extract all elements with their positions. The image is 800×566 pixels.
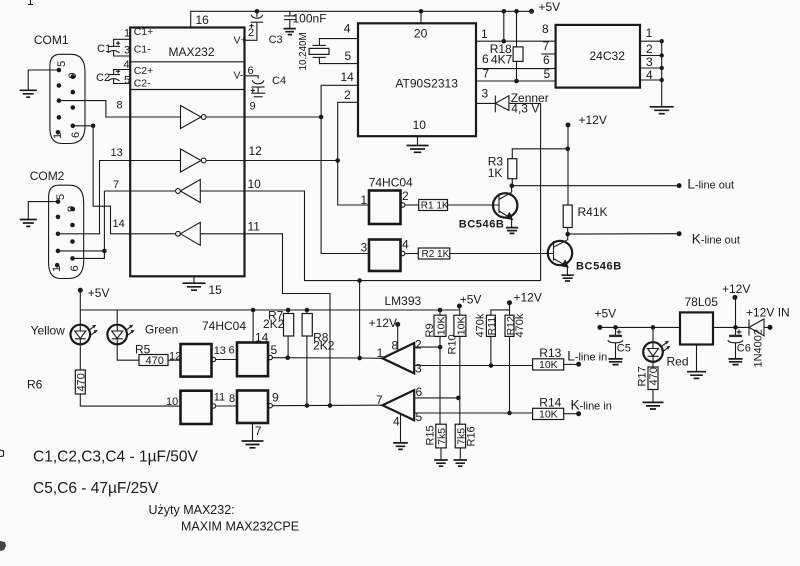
zener diode 4,3V: [476, 102, 495, 104]
svg-text:470: 470: [146, 355, 164, 367]
IC U1 MAX232 body: [130, 28, 244, 277]
svg-text:10.240M: 10.240M: [298, 32, 309, 70]
svg-text:+12V IN: +12V IN: [746, 306, 790, 320]
svg-text:10K: 10K: [436, 317, 448, 336]
svg-text:100nF: 100nF: [293, 12, 327, 26]
resistor R14 10K: [533, 408, 564, 419]
svg-text:BC546B: BC546B: [576, 261, 622, 273]
gate U6D 74HC04 pins 8-9: [237, 391, 268, 424]
svg-text:4: 4: [393, 415, 400, 429]
svg-text:5: 5: [56, 61, 68, 67]
resistor R8 2K2: [305, 308, 310, 313]
24C32 right pins to ground bus: [640, 40, 662, 42]
svg-text:AT90S2313: AT90S2313: [395, 77, 458, 91]
svg-text:2K2: 2K2: [263, 317, 285, 331]
svg-text:16: 16: [196, 13, 210, 27]
ground under 100nF: [283, 29, 296, 35]
wire LED1 to R6: [79, 345, 81, 371]
diode D4 1N4002: [748, 320, 750, 336]
resistor R15 7k5: [436, 424, 446, 448]
ground at COM2: [20, 220, 37, 227]
wire comp2 pin4 to ground: [400, 414, 402, 443]
svg-text:6: 6: [70, 132, 82, 138]
+5V terminal at R10: [457, 304, 462, 309]
crystal X1 10.240M: [319, 39, 358, 46]
+12V terminal first: [566, 123, 571, 128]
svg-text:9: 9: [66, 206, 78, 212]
svg-text:470k: 470k: [475, 313, 487, 337]
COM2 pin dots right column: [70, 207, 75, 212]
+5V rail top: [191, 11, 532, 27]
stray mark top-left corner: [28, 0, 33, 5]
wire 74HC04 pin7 to ground: [252, 423, 254, 441]
svg-text:2: 2: [344, 88, 351, 102]
svg-text:C1+: C1+: [134, 26, 154, 38]
ground at COM1: [20, 90, 37, 97]
resistor R1 1K: [419, 200, 448, 211]
wire comp2 pin6: [414, 397, 458, 399]
svg-text:Green: Green: [145, 323, 178, 337]
wire +12V down: [567, 125, 569, 205]
K-line out terminal: [677, 231, 682, 236]
svg-text:R41K: R41K: [578, 205, 608, 219]
stray mark left edge bottom: [0, 541, 6, 551]
svg-text:C3: C3: [269, 34, 283, 46]
wire COM2 pin3 to MAX232 pin13: [58, 161, 130, 234]
resistor R5 470: [139, 355, 168, 366]
svg-text:R6: R6: [27, 378, 43, 392]
wire MAX232 pin10 net: [245, 191, 541, 281]
svg-text:10K: 10K: [455, 317, 467, 336]
svg-text:5: 5: [544, 67, 551, 81]
IC U7 78L05 body: [680, 312, 713, 344]
svg-text:R9: R9: [424, 323, 436, 337]
svg-text:2: 2: [646, 42, 653, 56]
svg-text:MAXIM MAX232CPE: MAXIM MAX232CPE: [181, 520, 299, 534]
svg-text:L-line in: L-line in: [567, 349, 607, 364]
+5V terminal top: [529, 9, 534, 14]
svg-text:R5: R5: [135, 343, 151, 357]
svg-text:11: 11: [214, 392, 225, 404]
svg-text:11: 11: [248, 220, 261, 234]
capacitor C4: [245, 76, 259, 79]
L-line out terminal: [677, 183, 682, 188]
svg-text:13: 13: [111, 147, 123, 159]
ground at C5: [608, 359, 622, 365]
svg-text:10: 10: [248, 177, 262, 191]
wire R5 to 74HC04 pin12: [168, 359, 181, 361]
ground at R15: [434, 460, 448, 466]
svg-text:+12V: +12V: [722, 282, 750, 296]
svg-text:6: 6: [543, 53, 550, 67]
svg-text:Red: Red: [667, 355, 689, 369]
buffer R2 in MAX232 row4: [130, 233, 175, 235]
wire COM1 pin6 down: [73, 125, 93, 127]
svg-text:+5V: +5V: [88, 286, 110, 300]
ground at 74HC04 pin7: [242, 441, 264, 448]
svg-text:Yellow: Yellow: [31, 324, 66, 338]
wire +5V stem to LED1: [79, 290, 81, 325]
buffer T2 in MAX232 row2: [130, 160, 180, 162]
svg-text:7: 7: [255, 424, 262, 438]
svg-text:8: 8: [117, 100, 123, 112]
wire LED2 to R5: [117, 345, 139, 361]
svg-text:R10: R10: [447, 334, 459, 354]
transistor Q1 BC546B: [493, 193, 517, 217]
svg-text:1: 1: [124, 28, 130, 40]
svg-text:BC546B: BC546B: [459, 219, 505, 231]
wire AT90 pin6 to 24C32 pin6: [476, 68, 556, 70]
LED D3 Red: [652, 327, 654, 342]
stray mark left edge middle: [0, 450, 4, 457]
svg-text:5: 5: [124, 75, 130, 87]
svg-text:4: 4: [124, 59, 130, 71]
wire gate output to R2: [405, 253, 418, 255]
svg-text:7: 7: [543, 39, 550, 53]
wire gateB output to LM393 pin1 net: [272, 357, 359, 359]
svg-text:470: 470: [648, 367, 660, 385]
svg-text:+5V: +5V: [595, 307, 617, 321]
wire R1 to Q1 base: [448, 204, 500, 206]
wire zener to pin10 net: [509, 103, 541, 280]
wire AT90 pin20 to +5V rail: [420, 11, 422, 23]
wire COM1 pin5 to ground: [28, 70, 59, 90]
svg-text:K-line out: K-line out: [692, 232, 740, 247]
svg-text:1: 1: [51, 266, 63, 272]
svg-text:COM1: COM1: [34, 33, 69, 47]
svg-text:470: 470: [75, 373, 87, 391]
svg-text:20: 20: [414, 27, 428, 41]
svg-text:LM393: LM393: [385, 294, 422, 308]
IC U3 24C32 body: [556, 25, 640, 88]
svg-text:MAX232: MAX232: [169, 45, 215, 59]
svg-text:7: 7: [113, 179, 119, 191]
svg-text:C6: C6: [737, 343, 751, 355]
svg-text:+12V: +12V: [514, 291, 542, 305]
svg-text:9: 9: [67, 72, 79, 78]
svg-text:14: 14: [113, 218, 125, 230]
wire rail to pin1 row: [503, 11, 505, 41]
gate U6B 74HC04 pins 6-5: [237, 343, 268, 377]
wire gateC out to gateD in: [216, 405, 237, 407]
wire gateD output to LM393 pin7: [272, 404, 382, 407]
svg-text:6: 6: [248, 65, 254, 77]
wire MAX232 pin9 to AT90 pin14 node: [245, 116, 322, 118]
svg-text:3: 3: [482, 87, 489, 101]
wire comp1 pin3 to R13: [414, 365, 532, 367]
wire L-line out: [512, 185, 679, 187]
svg-text:10: 10: [166, 396, 178, 408]
svg-text:3: 3: [646, 55, 653, 69]
svg-text:R11: R11: [486, 317, 498, 336]
+5V rail LM393 area: [80, 309, 460, 311]
svg-text:1: 1: [646, 26, 653, 40]
resistor R2 1K: [418, 248, 450, 259]
svg-text:10K: 10K: [539, 409, 558, 421]
resistor R11 470k: [491, 303, 510, 316]
resistor R16 7k5: [455, 424, 465, 448]
wire comp1 output net: [360, 357, 383, 359]
ground at MAX232 pin 15: [193, 276, 195, 283]
L-line in terminal: [576, 362, 581, 367]
resistor R17 470: [648, 367, 658, 390]
svg-text:13: 13: [214, 345, 226, 357]
wire MAX232 pin12 to AT90 pin2 node: [245, 160, 338, 162]
gate U6A 74HC04 pins 12-13: [181, 344, 212, 377]
svg-text:9: 9: [272, 391, 279, 405]
resistor R4 1K: [563, 205, 572, 228]
buffer T1 in MAX232 row1: [130, 116, 180, 118]
svg-text:78L05: 78L05: [685, 295, 719, 309]
wire MAX232 pin11 to 74HC04 pin9 net: [245, 234, 331, 406]
svg-text:6: 6: [482, 52, 489, 66]
ground at 78L05: [696, 345, 698, 372]
resistor R13 10K: [533, 359, 564, 370]
wire R6 to 74HC04 pin10: [80, 394, 180, 406]
node junction rail-R18 branch: [514, 9, 519, 14]
svg-text:10K: 10K: [539, 359, 558, 371]
svg-text:1: 1: [52, 133, 64, 139]
wire gateA out to gateB in: [216, 359, 237, 361]
svg-text:R17: R17: [637, 366, 649, 386]
COM2 pin dots left column: [56, 199, 61, 204]
wire AT90 pin2 down to row2 and 74HC04 pin1: [338, 102, 369, 205]
wire COM1 pin6 to MAX232 pin14: [93, 126, 130, 234]
svg-text:1: 1: [481, 27, 488, 41]
+12V terminal above R12: [507, 300, 512, 305]
resistor R7 2K2: [286, 308, 291, 313]
svg-text:C1-: C1-: [134, 44, 151, 56]
svg-text:K-line in: K-line in: [571, 398, 612, 413]
resistor R18 4K7: [516, 11, 518, 47]
COM1 pin dots right column: [71, 75, 76, 80]
resistor R9 10K: [438, 308, 443, 313]
svg-text:9: 9: [250, 101, 256, 113]
svg-text:15: 15: [209, 283, 223, 297]
svg-text:C2: C2: [96, 72, 110, 84]
svg-text:1: 1: [361, 193, 368, 207]
ground at C6: [728, 359, 742, 365]
svg-text:2: 2: [248, 27, 254, 39]
svg-text:5: 5: [271, 343, 278, 357]
svg-text:74HC04: 74HC04: [369, 176, 413, 190]
svg-text:12: 12: [169, 351, 181, 363]
svg-text:3: 3: [415, 362, 422, 376]
svg-text:R15: R15: [425, 425, 437, 445]
node junction AT90 pin20-rail: [419, 9, 424, 14]
wire COM2 pin5 to ground: [28, 202, 58, 220]
svg-text:4: 4: [646, 68, 653, 82]
gate U6C 74HC04 pins 10-11: [181, 391, 212, 424]
ground at Q2 emitter: [562, 275, 574, 281]
wire comp2 pin5 to R14: [414, 412, 532, 414]
LED D2 Green: [116, 310, 118, 325]
svg-text:1K: 1K: [488, 166, 503, 180]
svg-text:8: 8: [542, 22, 549, 36]
svg-text:24C32: 24C32: [590, 49, 626, 63]
COM1 pin dots left column: [57, 68, 62, 73]
wire comp1 pin2: [414, 346, 440, 348]
wire R2 to Q2 base: [450, 253, 554, 255]
resistor R6 470: [75, 370, 85, 394]
capacitor C5: [615, 327, 617, 336]
svg-text:Użyty MAX232:: Użyty MAX232:: [149, 503, 235, 517]
wire COM2 pins to MAX232 pin7: [104, 190, 130, 192]
node junction C3-rail: [255, 9, 260, 14]
ground at LM393 pin4: [393, 443, 408, 450]
svg-text:R1 1K: R1 1K: [421, 200, 449, 211]
svg-text:6: 6: [69, 265, 81, 271]
node junction rail-24C32 pin8 branch: [502, 9, 507, 14]
svg-text:14: 14: [255, 331, 269, 345]
capacitor 100nF: [289, 11, 291, 16]
svg-text:6: 6: [229, 345, 235, 357]
svg-text:C5,C6 - 47µF/25V: C5,C6 - 47µF/25V: [33, 480, 159, 497]
wire AT90 pin1 to 24C32 pin8: [476, 40, 556, 42]
svg-text:COM2: COM2: [30, 169, 65, 183]
svg-text:V-: V-: [234, 70, 244, 82]
wire AT90 pin14 down to row1 and 74HC04 pin3: [321, 85, 369, 253]
ground at AT90 pin10: [417, 136, 419, 145]
transistor Q2 BC546B: [548, 241, 572, 265]
svg-text:5: 5: [416, 410, 423, 424]
+12V terminal right: [735, 297, 737, 327]
K-line in terminal: [576, 411, 581, 416]
svg-text:7k5: 7k5: [436, 428, 448, 445]
wire COM1 pin3 to MAX232 pin8: [59, 101, 130, 117]
svg-text:R13: R13: [539, 346, 561, 360]
svg-text:2K2: 2K2: [313, 339, 335, 353]
wire pin8 stub: [397, 324, 399, 351]
gate U4B 74HC04 pins 3-4: [369, 240, 401, 272]
wire 78L05 to +12V node: [713, 326, 749, 328]
buffer R1 in MAX232 row3: [130, 190, 175, 192]
svg-text:14: 14: [341, 70, 355, 84]
capacitor C2: [114, 70, 131, 75]
wire AT90 pin7 to 24C32 pin5: [476, 80, 556, 82]
LED D3 light arrows: [662, 343, 667, 346]
+12V terminal at LM393 pin8: [395, 322, 400, 327]
wire +5V to 78L05: [600, 326, 680, 328]
svg-text:1N4002: 1N4002: [753, 329, 765, 368]
comparator U5A LM393: [382, 343, 414, 373]
svg-text:C1: C1: [97, 43, 111, 55]
svg-text:C2-: C2-: [134, 78, 151, 90]
svg-text:+5V: +5V: [460, 293, 482, 307]
svg-text:C1,C2,C3,C4 - 1µF/50V: C1,C2,C3,C4 - 1µF/50V: [33, 449, 199, 466]
ground at 24C32: [650, 107, 674, 114]
svg-text:L-line out: L-line out: [687, 177, 734, 192]
+12V IN terminal: [768, 325, 773, 330]
IC U2 AT90S2313 body: [358, 23, 476, 136]
svg-text:4K7: 4K7: [491, 53, 513, 67]
svg-text:8: 8: [229, 393, 235, 405]
+5V terminal LED area: [78, 288, 83, 293]
svg-text:74HC04: 74HC04: [202, 319, 246, 333]
wire gate output to R1: [405, 204, 419, 206]
resistor R12 470k: [509, 303, 511, 316]
svg-text:R2 1K: R2 1K: [422, 249, 450, 260]
svg-text:5: 5: [345, 49, 352, 63]
svg-text:C5: C5: [617, 343, 631, 355]
LED D1 light arrows: [89, 327, 94, 330]
svg-text:6: 6: [416, 385, 423, 399]
svg-text:5: 5: [55, 194, 67, 200]
svg-text:+12V: +12V: [369, 316, 397, 330]
svg-text:C2+: C2+: [134, 65, 154, 77]
ground at Q1 emitter: [506, 228, 518, 234]
svg-text:10: 10: [413, 118, 427, 132]
capacitor C1: [114, 39, 131, 46]
svg-text:+5V: +5V: [539, 0, 561, 14]
svg-text:C4: C4: [272, 75, 286, 87]
svg-text:R14: R14: [539, 396, 561, 410]
svg-text:2: 2: [402, 189, 409, 203]
svg-text:+12V: +12V: [579, 113, 607, 127]
ground at R17: [643, 402, 664, 409]
ground at R16: [454, 460, 468, 466]
resistor R3 1K: [512, 149, 567, 159]
capacitor C3: [256, 11, 258, 16]
svg-text:4: 4: [402, 238, 409, 252]
resistor R10 10K: [459, 310, 461, 315]
capacitor C6: [735, 327, 737, 336]
+5V terminal 78L05 area: [597, 325, 602, 330]
svg-text:470k: 470k: [514, 313, 526, 337]
svg-text:7k5: 7k5: [456, 428, 468, 445]
svg-text:3: 3: [124, 45, 130, 57]
gate U4A 74HC04 pins 1-2: [369, 191, 401, 225]
comparator U5B LM393: [382, 390, 414, 420]
svg-text:2: 2: [415, 338, 422, 352]
wire K-line out: [568, 233, 679, 235]
LED D2 light arrows: [126, 327, 130, 330]
24C32 pin7 stub: [541, 53, 555, 55]
svg-text:3: 3: [361, 241, 368, 255]
svg-text:12: 12: [249, 144, 263, 158]
wire 74HC04 pin14 to +5V rail: [252, 310, 254, 343]
wire LED3 to R17: [652, 362, 654, 367]
svg-text:4: 4: [344, 22, 351, 36]
